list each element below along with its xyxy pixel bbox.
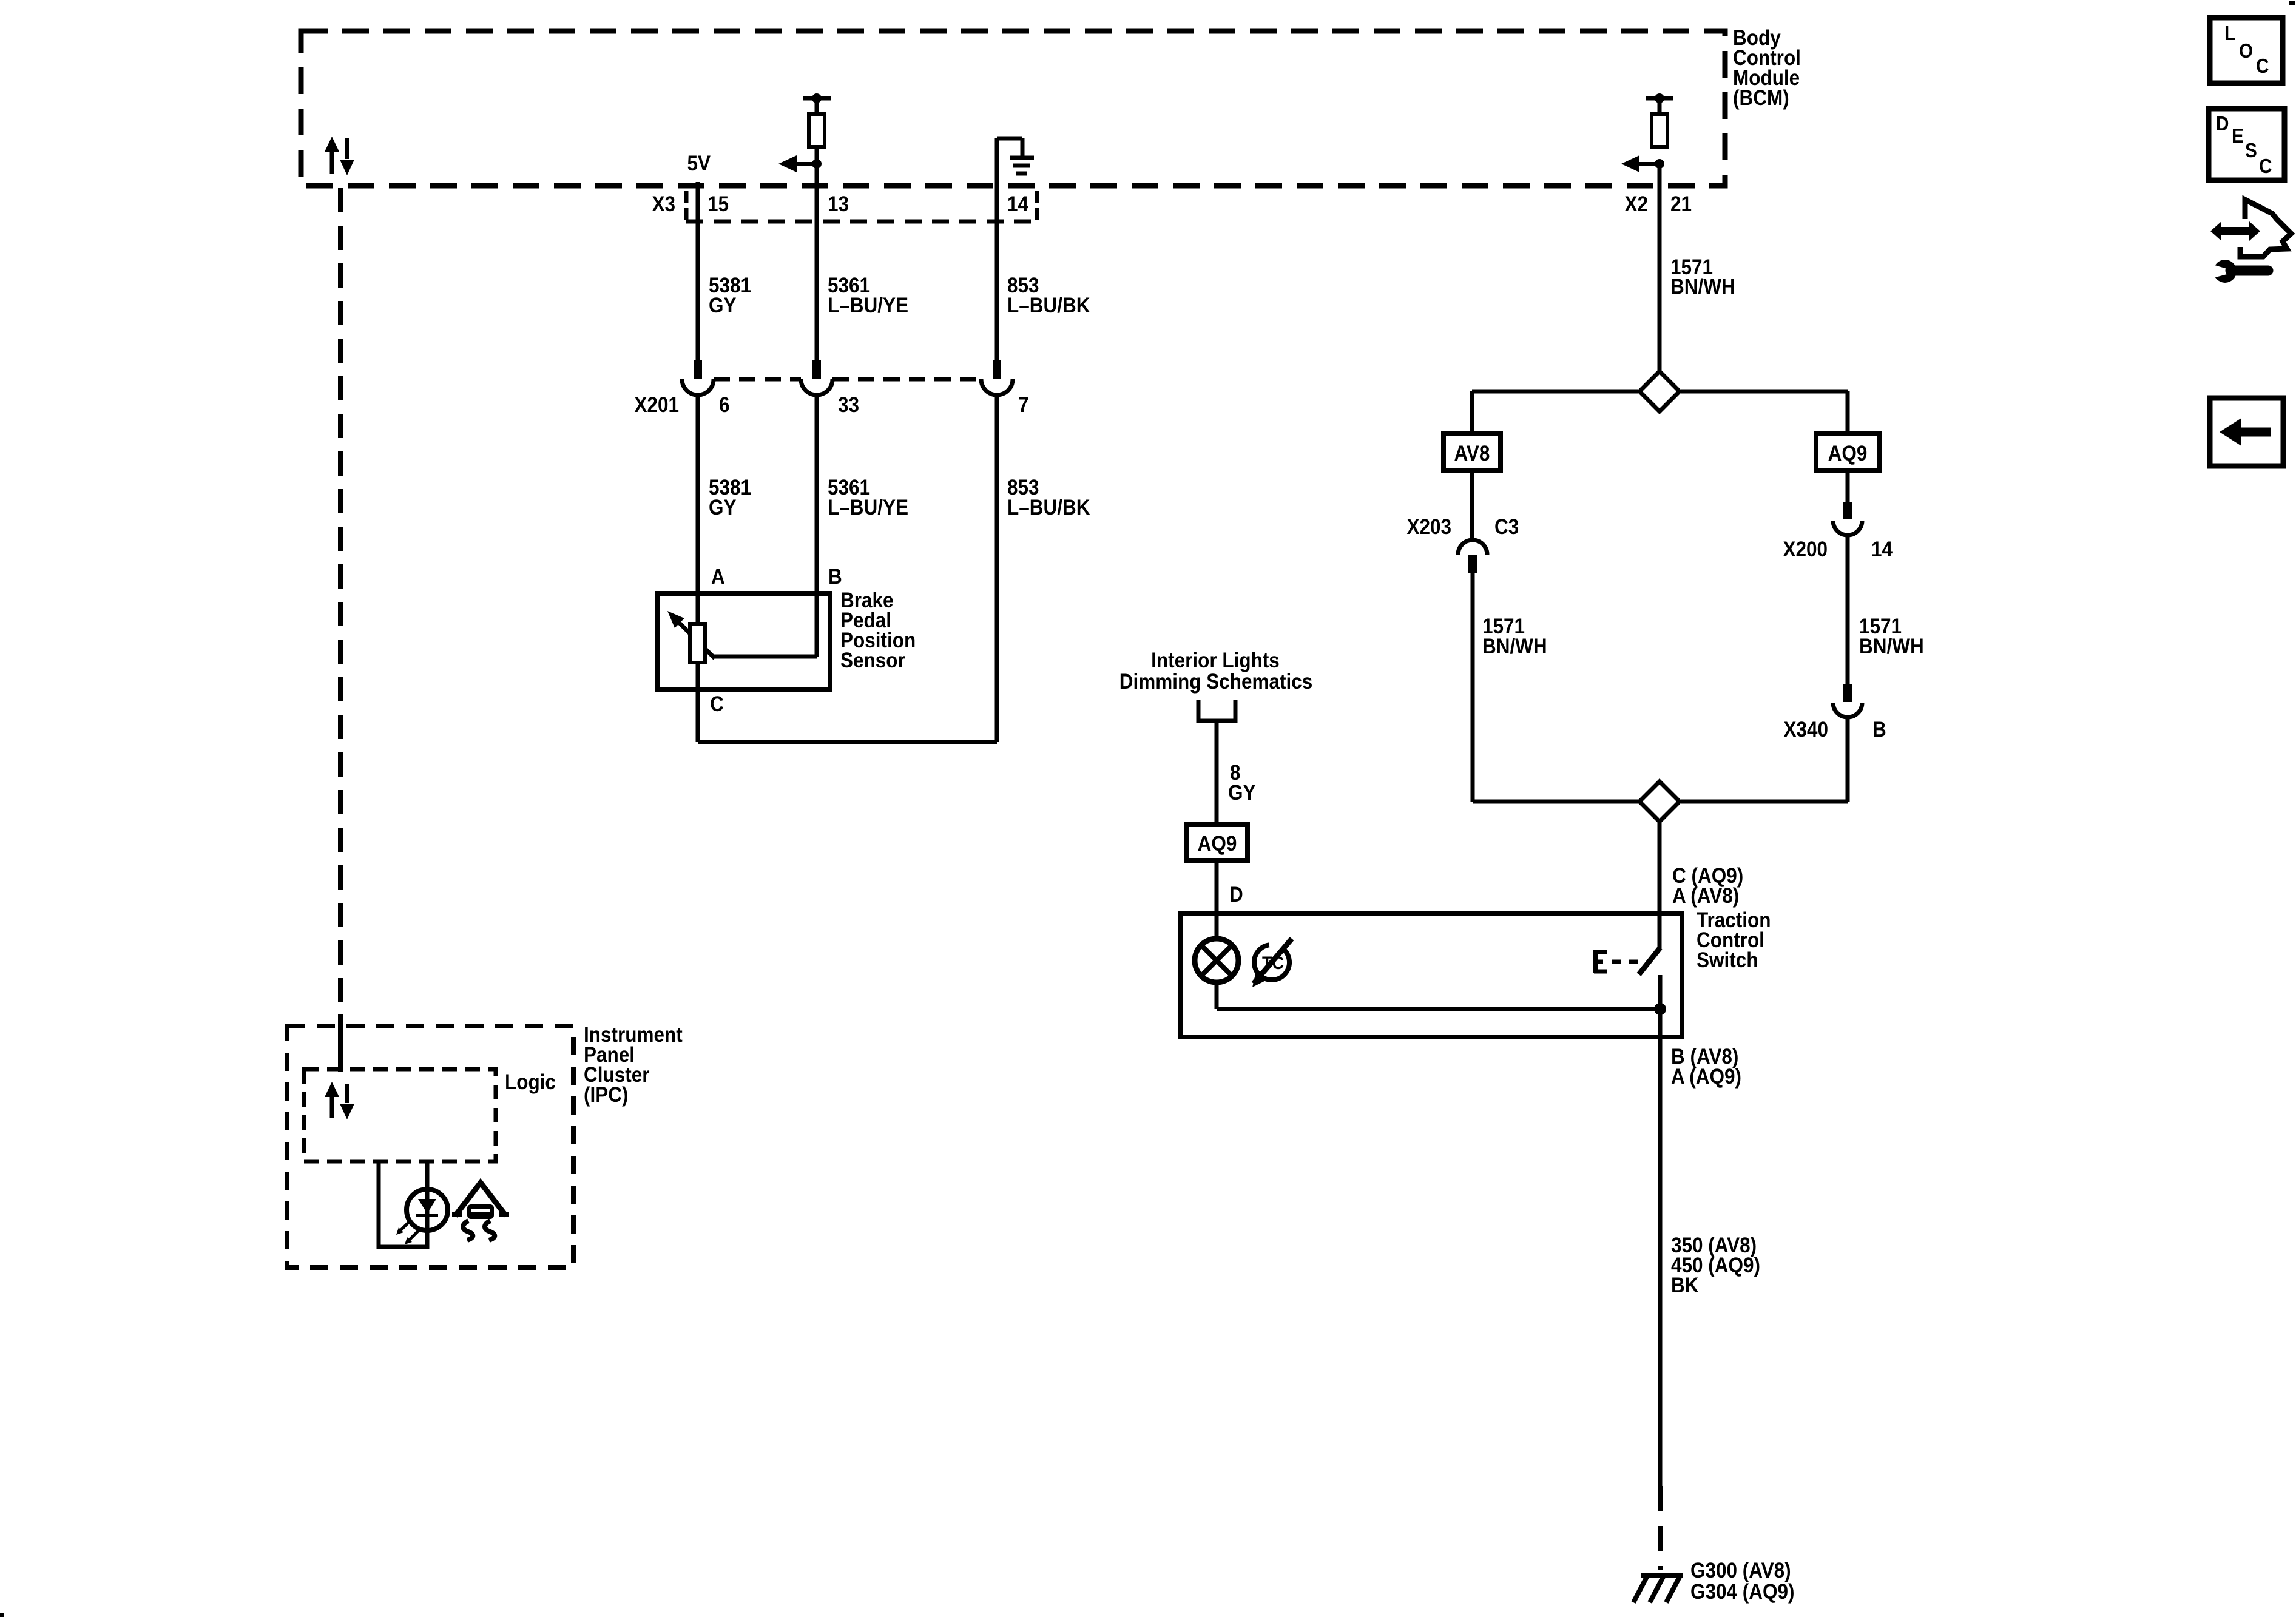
- svg-text:(IPC): (IPC): [584, 1084, 628, 1107]
- svg-text:B: B: [828, 565, 842, 589]
- svg-text:GY: GY: [709, 294, 736, 318]
- svg-text:15: 15: [707, 193, 729, 217]
- svg-text:AQ9: AQ9: [1198, 832, 1237, 856]
- svg-text:33: 33: [838, 394, 859, 417]
- svg-text:G304 (AQ9): G304 (AQ9): [1690, 1581, 1794, 1604]
- svg-text:6: 6: [719, 394, 730, 417]
- svg-text:21: 21: [1670, 193, 1692, 217]
- svg-text:X340: X340: [1783, 718, 1828, 742]
- svg-text:BN/WH: BN/WH: [1859, 635, 1924, 659]
- svg-text:AQ9: AQ9: [1828, 442, 1868, 466]
- svg-text:5V: 5V: [687, 152, 711, 176]
- svg-text:14: 14: [1007, 193, 1028, 217]
- svg-text:O: O: [2239, 40, 2253, 62]
- svg-text:Interior Lights: Interior Lights: [1151, 649, 1280, 673]
- svg-text:A (AQ9): A (AQ9): [1671, 1065, 1741, 1089]
- svg-text:(BCM): (BCM): [1733, 87, 1789, 110]
- svg-text:X200: X200: [1783, 538, 1828, 562]
- svg-text:C: C: [2259, 155, 2272, 178]
- svg-text:G300 (AV8): G300 (AV8): [1690, 1559, 1791, 1583]
- svg-text:X3: X3: [652, 193, 675, 217]
- svg-text:GY: GY: [1228, 781, 1255, 805]
- svg-text:X203: X203: [1406, 516, 1451, 539]
- svg-text:13: 13: [828, 193, 849, 217]
- svg-text:Sensor: Sensor: [840, 649, 905, 673]
- svg-text:Logic: Logic: [505, 1071, 556, 1095]
- svg-text:C: C: [2256, 55, 2269, 78]
- svg-text:14: 14: [1871, 538, 1893, 562]
- svg-text:BN/WH: BN/WH: [1670, 275, 1735, 299]
- svg-text:S: S: [2245, 140, 2257, 162]
- svg-text:GY: GY: [709, 496, 736, 520]
- svg-text:D: D: [1229, 883, 1243, 907]
- svg-text:AV8: AV8: [1454, 442, 1490, 466]
- svg-text:A: A: [711, 565, 725, 589]
- svg-text:C: C: [710, 693, 724, 717]
- svg-text:X201: X201: [634, 394, 679, 417]
- svg-text:Dimming Schematics: Dimming Schematics: [1119, 670, 1312, 694]
- svg-text:L–BU/YE: L–BU/YE: [828, 294, 908, 318]
- svg-text:D: D: [2216, 113, 2229, 135]
- svg-text:X2: X2: [1624, 193, 1648, 217]
- svg-text:L–BU/BK: L–BU/BK: [1007, 496, 1090, 520]
- svg-text:A (AV8): A (AV8): [1672, 885, 1739, 908]
- svg-text:BN/WH: BN/WH: [1482, 635, 1547, 659]
- svg-text:C3: C3: [1494, 516, 1519, 539]
- svg-text:E: E: [2232, 125, 2244, 147]
- svg-text:L–BU/YE: L–BU/YE: [828, 496, 908, 520]
- svg-text:B: B: [1872, 718, 1886, 742]
- svg-text:L: L: [2224, 22, 2235, 45]
- svg-text:L–BU/BK: L–BU/BK: [1007, 294, 1090, 318]
- svg-text:Switch: Switch: [1697, 949, 1758, 973]
- svg-text:7: 7: [1018, 394, 1029, 417]
- svg-text:BK: BK: [1671, 1274, 1698, 1298]
